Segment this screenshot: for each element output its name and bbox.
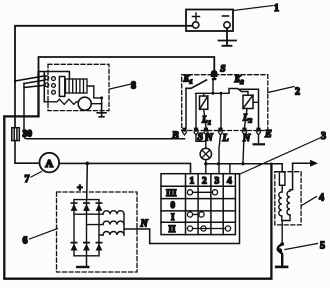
ammeter 7 (40, 153, 60, 173)
wire L2 stubs (242, 92, 259, 128)
HT arrow (293, 160, 318, 167)
wire lamp down (205, 160, 207, 174)
svg-text:1: 1 (190, 176, 195, 186)
starter ground (97, 104, 106, 117)
switch S plug (211, 70, 218, 77)
relay coil L2 (243, 95, 253, 108)
starter resistor (44, 99, 78, 104)
coil secondary (287, 191, 290, 215)
relay terminals row (182, 128, 260, 135)
wire motor right (91, 98, 101, 104)
wire plus feed (86, 163, 89, 199)
wire S line top (39, 57, 215, 78)
svg-text:III: III (166, 188, 177, 198)
svg-text:+: + (77, 183, 83, 194)
wire fan to starter terminals (15, 76, 45, 88)
svg-text:7: 7 (25, 174, 30, 185)
svg-text:4: 4 (227, 176, 232, 186)
label 4 leader (302, 197, 317, 206)
relay ground (253, 143, 266, 145)
wire coil to motor (87, 86, 102, 98)
label 7 leader (31, 172, 42, 178)
svg-text:0: 0 (171, 200, 176, 210)
junction generator plus (85, 162, 89, 166)
junction (204, 162, 207, 165)
breaker ground (275, 266, 289, 269)
wire N out (124, 229, 150, 244)
svg-text:6: 6 (23, 236, 28, 247)
breaker 5 (280, 242, 284, 246)
battery ground (219, 28, 237, 46)
indicator lamp (200, 148, 211, 159)
relay K2 blade (229, 89, 259, 128)
svg-text:S: S (220, 65, 225, 75)
svg-text:2: 2 (295, 87, 300, 98)
terminal labels (171, 129, 272, 144)
wire lamp node to coil (206, 164, 282, 172)
svg-text:3: 3 (321, 131, 326, 142)
junction (241, 162, 244, 165)
starter motor M (78, 97, 91, 110)
svg-text:I: I (171, 212, 175, 222)
svg-text:L: L (222, 133, 229, 144)
generator ground (86, 256, 88, 266)
fuse 30 (12, 128, 19, 141)
coil primary (279, 185, 282, 216)
wire N2 drop (243, 135, 244, 164)
wire E to ground (258, 135, 260, 143)
wire left frame (4, 72, 271, 279)
svg-text:8: 8 (131, 81, 136, 92)
wire S node drop (196, 81, 230, 128)
header digits (190, 176, 233, 186)
junction (220, 92, 223, 95)
starter 8 dashed box (48, 64, 109, 110)
wire L to col3 (219, 135, 221, 174)
svg-text:N: N (140, 219, 149, 230)
svg-text:3: 3 (215, 176, 220, 186)
label 5 leader (285, 244, 318, 250)
starter solenoid coil (66, 79, 88, 93)
battery 1 (186, 10, 233, 32)
wire L1 stubs (204, 93, 206, 127)
svg-text:B: B (171, 131, 179, 142)
label 8 leader (109, 84, 130, 89)
contacts row I (187, 212, 204, 217)
svg-text:E: E (264, 129, 272, 140)
wire secondary to arrow (290, 163, 293, 189)
starter inner frame (39, 72, 70, 102)
coil resistor (279, 172, 285, 185)
label 3 leader (240, 138, 321, 175)
wire battery cable down (14, 82, 16, 128)
svg-text:5: 5 (320, 241, 325, 252)
wire col4 stub (229, 164, 231, 174)
wire ammeter to switch col1 (59, 163, 190, 173)
wire K1 to B (185, 88, 187, 127)
contacts row II (187, 226, 230, 231)
starter terminal circles (45, 76, 56, 94)
label 6 leader (30, 229, 58, 240)
junction (100, 96, 103, 99)
wire battery plus to left (15, 26, 193, 82)
label 1 leader (234, 6, 274, 11)
rectifier rails (74, 200, 99, 256)
junction (212, 92, 215, 95)
junction (217, 162, 220, 165)
svg-text:2: 2 (202, 176, 207, 186)
diodes top (71, 202, 103, 211)
switch outer case (150, 174, 240, 244)
wire fuse to ammeter (15, 141, 38, 164)
S contact plate (212, 78, 217, 80)
relay coil L1 (200, 96, 208, 109)
stator windings (74, 211, 124, 235)
relay box 2 dashed (182, 75, 268, 131)
wire starter to relay B (24, 84, 185, 139)
svg-text:A: A (45, 158, 53, 170)
svg-text:1: 1 (274, 3, 279, 14)
coil bottoms join (282, 215, 290, 243)
row labels (166, 188, 177, 234)
ignition coil 4 dashed box (275, 172, 301, 225)
svg-text:II: II (169, 224, 177, 234)
ignition switch 3 grid (161, 174, 235, 235)
label 2 leader (268, 87, 294, 93)
starter solenoid core (59, 77, 64, 97)
generator 6 dashed box (57, 192, 138, 272)
diodes bottom (71, 242, 103, 251)
wire N1 to lamp (205, 135, 207, 148)
wire S terminal elbow (196, 135, 206, 141)
relay K1 blade (186, 80, 207, 88)
contacts row III (187, 190, 217, 195)
svg-text:4: 4 (319, 193, 324, 204)
